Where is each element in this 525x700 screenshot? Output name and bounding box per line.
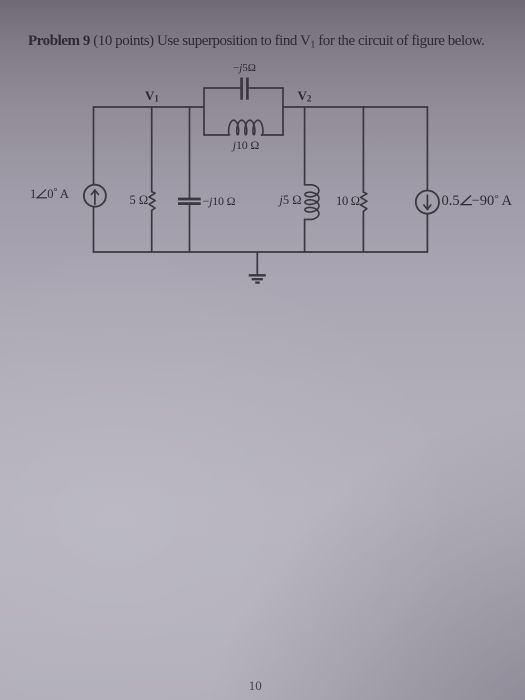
inductor L2 j5 coil <box>305 185 319 220</box>
wire: top rail right (V2 node) <box>283 106 427 108</box>
wire: right branch lower <box>426 214 428 252</box>
wire: left branch lower <box>93 207 95 252</box>
wire: LC box top branch left <box>204 87 240 89</box>
inductor L2 j5 top stub <box>305 184 312 186</box>
capacitor C1 -j10 plates <box>178 198 201 201</box>
current source I2 arrow <box>426 195 428 209</box>
inductor L2 j5 bottom stub <box>305 218 312 220</box>
resistor R2 10ohm zigzag <box>361 192 367 211</box>
wire: top rail left (V1 node) <box>94 106 205 108</box>
capacitor C2 -j5 plates <box>240 78 243 100</box>
inductor L2 value label <box>279 193 301 208</box>
wire: -j10 cap branch lower <box>189 205 191 252</box>
title <box>28 33 484 51</box>
wire: j5 branch upper <box>304 107 306 185</box>
ground symbol bars <box>249 274 266 276</box>
current source I2 circle <box>416 191 439 214</box>
wire: bottom rail <box>94 251 428 253</box>
wire: 10 ohm branch upper <box>362 107 364 192</box>
wire: right branch upper <box>426 107 428 190</box>
wire: 5 ohm branch upper <box>151 107 153 192</box>
resistor R2 value label <box>336 194 360 209</box>
wire: LC box top branch right <box>249 87 283 89</box>
wire: LC box bottom branch right <box>262 134 284 136</box>
inductor L1 j10 coil <box>229 120 263 135</box>
current source I1 arrow <box>94 190 96 204</box>
wire: -j10 cap branch upper <box>189 107 191 198</box>
wire: LC box right edge <box>282 88 284 135</box>
wire: LC box left edge <box>203 88 205 135</box>
capacitor C1 value label <box>203 194 236 209</box>
inductor L1 value label <box>233 138 259 153</box>
current source I1 circle <box>84 185 106 207</box>
wire: ground stem <box>256 252 258 275</box>
capacitor C2 value label <box>233 62 256 74</box>
wire: LC box bottom branch left <box>204 134 229 136</box>
current source I2 value label <box>442 193 513 210</box>
node V2 label <box>298 88 312 104</box>
resistor R1 5ohm zigzag <box>149 192 155 211</box>
resistor R1 value label <box>130 193 149 208</box>
wire: j5 branch lower <box>304 219 306 252</box>
wire: left branch upper <box>93 107 95 185</box>
current source I1 value label <box>30 187 69 202</box>
page number <box>249 678 262 694</box>
node V1 label <box>145 88 159 104</box>
wire: 10 ohm branch lower <box>362 211 364 252</box>
wire: 5 ohm branch lower <box>151 210 153 252</box>
